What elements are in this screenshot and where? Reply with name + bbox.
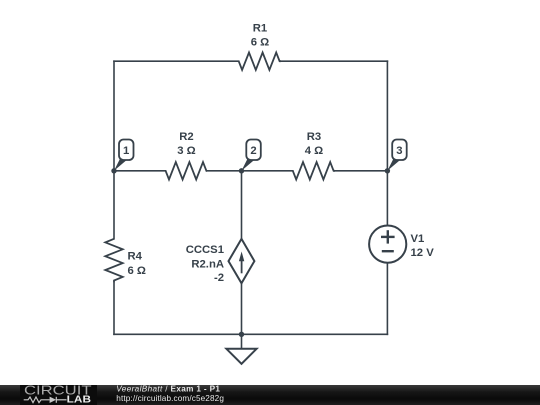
label R2 value [177,131,195,157]
resistor R2 [166,162,207,179]
svg-text:CCCS1: CCCS1 [186,244,224,256]
wire mid vertical upper (node2 to CCCS1) [241,171,243,239]
wire node2 to R3 [242,170,293,172]
svg-text:4 Ω: 4 Ω [305,145,323,157]
resistor R1 [239,53,281,70]
node 2 callout [242,140,261,171]
svg-text:R4: R4 [128,251,143,263]
node 3 callout [387,140,406,171]
svg-text:2: 2 [250,145,256,157]
wire ground stub [241,334,243,349]
wire node1 to R2 [114,170,166,172]
svg-text:3 Ω: 3 Ω [177,145,195,157]
CircuitLab logo symbol (resistor + diode) [24,397,67,403]
wire R2 to node2 [207,170,242,172]
svg-text:12 V: 12 V [411,247,435,259]
node 1 callout [114,140,134,171]
wire right vertical lower (V1 to bottom) [386,263,388,335]
current source CCCS1 diamond [229,239,255,283]
ground junction dot [239,332,244,337]
wire mid vertical lower (CCCS1 to bottom) [241,283,243,334]
V1 plus sign [381,230,395,243]
voltage source V1 circle [369,226,406,263]
wire top-left vertical [113,61,115,171]
svg-text:1: 1 [123,145,129,157]
svg-text:http://circuitlab.com/c5e282g: http://circuitlab.com/c5e282g [116,394,224,403]
label R3 value [305,131,323,157]
wire bottom horizontal [114,333,387,335]
resistor R4 [105,239,122,282]
ground symbol [226,349,256,364]
svg-text:R3: R3 [307,131,321,143]
CircuitLab logo background [20,385,97,405]
wire left vertical lower (R4 to bottom) [113,282,115,334]
CCCS1 arrow [239,252,244,274]
svg-text:R1: R1 [253,23,267,35]
svg-text:3: 3 [396,145,402,157]
node junction dot 1 [111,168,116,173]
svg-text:6 Ω: 6 Ω [128,265,146,277]
wire right vertical upper [386,61,388,171]
label CCCS1 value [186,244,224,284]
wire right vertical (node3 to V1) [386,171,388,226]
svg-text:-2: -2 [214,272,224,284]
svg-text:V1: V1 [411,233,425,245]
svg-text:R2.nA: R2.nA [191,258,224,270]
svg-text:LAB: LAB [67,395,91,405]
svg-text:6 Ω: 6 Ω [251,37,269,49]
V1 minus sign [382,250,394,252]
wire left vertical mid (node1 to R4) [113,171,115,239]
svg-text:R2: R2 [179,131,193,143]
label R4 value [128,251,146,278]
label R1 value [251,23,269,49]
wire R3 to node3 [335,170,387,172]
label V1 value [411,233,435,259]
wire top horizontal right [281,60,388,62]
resistor R3 [293,162,335,179]
node junction dot 2 [239,168,244,173]
svg-text:VeeralBhatt / Exam 1 - P1: VeeralBhatt / Exam 1 - P1 [116,384,220,393]
wire top horizontal left [114,60,239,62]
node junction dot 3 [385,168,390,173]
